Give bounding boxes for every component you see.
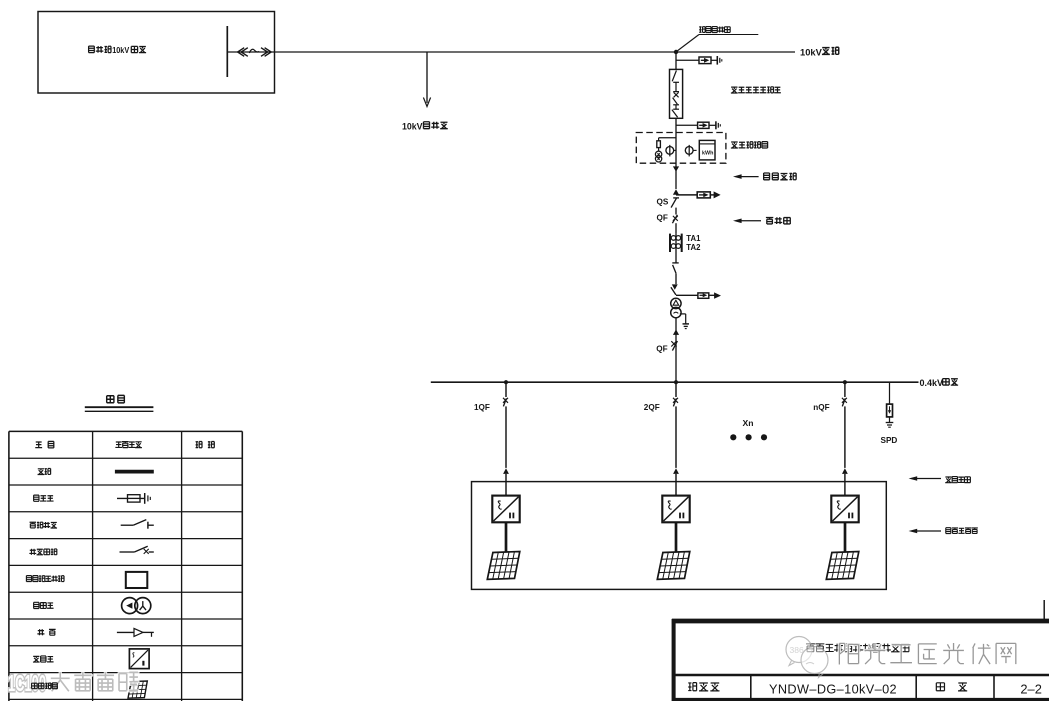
watermark bubbles logo [786, 637, 828, 678]
legend header 备注 [196, 442, 215, 448]
inverter unit 1 [487, 496, 520, 580]
breaker QF [672, 215, 677, 234]
feeder breaker 1QF [503, 382, 509, 495]
label nQF [813, 403, 829, 412]
callout arrow 分布式光伏 [909, 529, 941, 534]
svg-text:QF: QF [656, 345, 667, 354]
PT branch with fuse [657, 138, 676, 151]
inverter unit 2 [657, 496, 690, 580]
label 1QF [474, 403, 490, 412]
svg-text:SPD: SPD [881, 436, 898, 445]
switch arrow + blade 2 [671, 284, 678, 295]
label SPD [881, 436, 898, 445]
svg-text:TA1: TA1 [686, 234, 701, 243]
svg-text:2QF: 2QF [644, 403, 660, 412]
label arrow 并网点 [733, 219, 761, 224]
legend label 熔断器 [34, 495, 54, 501]
watermark logo 1C100 [8, 670, 46, 696]
wire 10kV branch + arrow [423, 52, 430, 107]
disconnector QS [671, 198, 679, 215]
node PCC (公共连接点) [674, 50, 678, 54]
legend title 图例 [107, 395, 125, 402]
node busbar 3 [843, 380, 847, 384]
cable C1 out [676, 191, 721, 198]
label 逆变单元 [945, 477, 970, 483]
fuse F2 branch [676, 118, 720, 132]
legend table grid [9, 431, 242, 701]
substation box (变电站10kV母线) [38, 12, 275, 94]
legend label 变压器 [34, 602, 54, 608]
CT TA1 TA2 [670, 234, 682, 263]
legend label 电缆 [37, 629, 55, 635]
watermark 阳光工匠光伏网 [839, 643, 1015, 665]
label 0.4kV母线 [920, 378, 959, 388]
title block divider v2 [915, 675, 917, 700]
PV units enclosure box [472, 482, 887, 590]
label 公共连接点 [699, 27, 730, 33]
current transformer CT2 [685, 145, 696, 157]
legend title underline [85, 407, 154, 411]
label QF lv [656, 345, 667, 354]
label 图号 [936, 683, 967, 691]
label TA2 [686, 243, 701, 252]
label arrow 送出线路 [733, 174, 759, 179]
title block top border [672, 619, 1049, 624]
legend symbol 变压器 [122, 598, 151, 614]
svg-text:1QF: 1QF [474, 403, 490, 412]
watermark 大数跨境 [51, 672, 138, 691]
legend symbol 组件方阵 [128, 681, 147, 698]
legend label 开关设备 [29, 549, 56, 555]
legend symbol 开关设备 [120, 546, 154, 554]
SPD ground [886, 423, 894, 428]
label QF [657, 214, 668, 223]
svg-text:10kV: 10kV [112, 45, 129, 55]
label 方案号 [688, 683, 719, 691]
svg-text:10kV: 10kV [402, 122, 423, 132]
breaker U1 box (智能真空断路器) [670, 52, 683, 118]
legend label 线路 [38, 468, 51, 474]
label 送出线路 text [764, 173, 796, 180]
line continuation symbol << ~ >> [238, 48, 272, 57]
label 变电站10kV母线 [89, 45, 146, 55]
svg-text:Xn: Xn [743, 418, 754, 428]
svg-text:0.4kV: 0.4kV [920, 378, 944, 388]
ellipsis dots [730, 434, 767, 440]
node busbar 2 [674, 380, 678, 384]
legend label 箱(配)电站 [26, 576, 64, 582]
current transformer CT1 [666, 145, 676, 157]
busbar 0.4kV [431, 381, 919, 383]
svg-text:TA2: TA2 [686, 243, 701, 252]
legend label 组件方阵 [32, 683, 58, 689]
svg-text:2–2: 2–2 [1020, 682, 1042, 697]
svg-text:QF: QF [657, 214, 668, 223]
drawing title text [806, 644, 909, 652]
title block bottom border [674, 698, 1049, 701]
metering cabinet box 关口计量箱 [636, 133, 726, 167]
transformer ground [680, 314, 689, 329]
surge protector SPD [887, 382, 893, 422]
svg-text:YNDW–DG–10kV–02: YNDW–DG–10kV–02 [769, 682, 897, 697]
svg-text:nQF: nQF [813, 403, 829, 412]
text 2-2 [1020, 682, 1042, 697]
title block divider v1 [750, 675, 752, 700]
label 关口计量箱 [731, 142, 768, 148]
legend label 逆变器 [33, 656, 54, 662]
title block row divider [674, 674, 1049, 676]
frame right border stub [1043, 600, 1045, 619]
wire 10kV main line [227, 51, 795, 53]
breaker QF lv [671, 341, 677, 351]
title block left border [672, 619, 676, 701]
node busbar 1 [504, 380, 508, 384]
legend symbol 箱(配)电站 [126, 572, 148, 588]
legend symbol 逆变器 [129, 649, 149, 669]
feeder breaker nQF [842, 382, 848, 495]
svg-text:QS: QS [657, 198, 669, 207]
legend label 隔离开关 [30, 522, 57, 528]
PCC leader line [677, 35, 759, 52]
cable C2 out [676, 292, 721, 298]
label TA1 [686, 234, 701, 243]
legend symbol 隔离开关 [121, 520, 154, 529]
label 分布式光伏 [946, 528, 978, 534]
svg-text:10kV: 10kV [800, 46, 823, 57]
breaker U1 internals [672, 71, 679, 118]
legend header 表示符号 [115, 442, 142, 448]
substation 10kV busbar [226, 26, 228, 77]
callout arrow 逆变单元 [909, 476, 941, 481]
label 10kV分支线 [402, 122, 448, 132]
inverter unit 3 [826, 496, 859, 580]
energy meter kWh [699, 140, 715, 160]
text YNDW-DG-10kV-02 [769, 682, 897, 697]
legend symbol 熔断器 [117, 493, 150, 504]
label 10kV线路 [800, 46, 839, 57]
title block divider v3 [993, 675, 995, 700]
legend symbol 线路 [115, 470, 154, 474]
svg-text:386: 386 [790, 645, 804, 655]
fuse F1 branch [676, 56, 722, 65]
legend label 组件方阵 overlay [32, 683, 58, 689]
disconnector blade 1 [672, 263, 678, 284]
label QS [657, 198, 669, 207]
transformer T1 [671, 298, 681, 318]
label 2QF [644, 403, 660, 412]
label Xn [743, 418, 754, 428]
legend header 名称 [35, 441, 54, 447]
legend symbol 电缆 [117, 628, 154, 636]
arrow down to outgoing [673, 166, 679, 189]
voltage transformer PT [655, 151, 661, 162]
arrow up into QS [673, 189, 679, 194]
wire below transformer [673, 318, 679, 382]
svg-text:kWh: kWh [702, 151, 713, 157]
label 并网点 text [766, 217, 790, 224]
feeder breaker 2QF [673, 382, 679, 495]
label 智能真空断路器 [731, 87, 781, 93]
